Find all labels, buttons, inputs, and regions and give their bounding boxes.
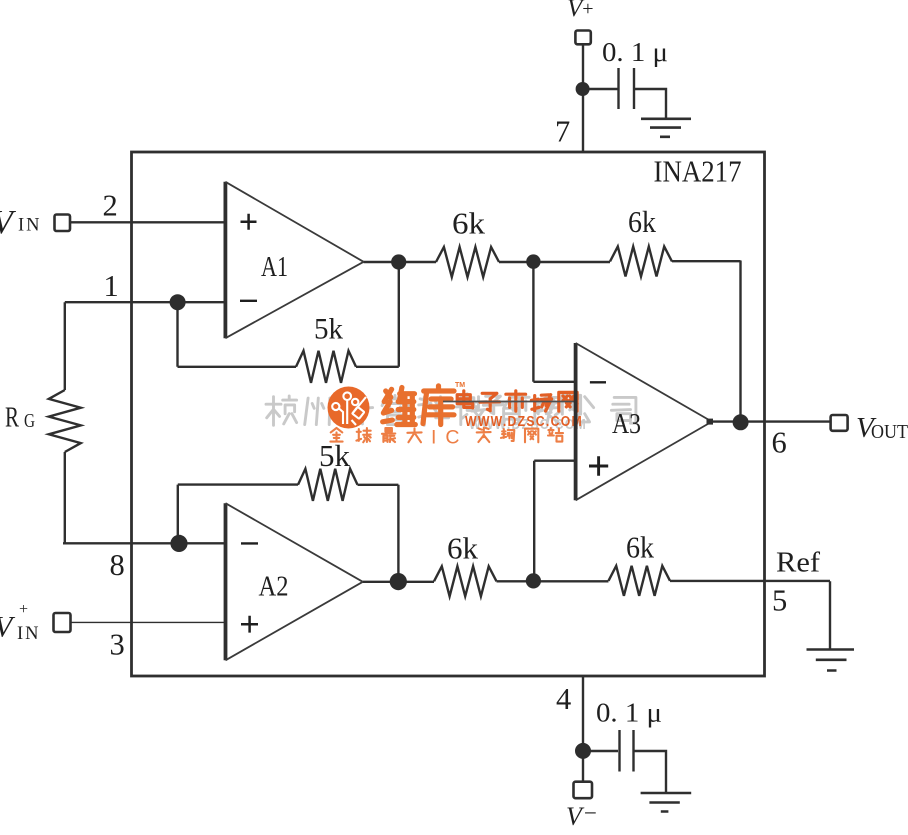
svg-text:IN: IN <box>17 624 41 644</box>
svg-text:5: 5 <box>772 584 787 618</box>
svg-text:6k: 6k <box>447 531 479 566</box>
svg-text:6k: 6k <box>452 206 486 241</box>
svg-text:1: 1 <box>104 269 119 303</box>
svg-text:5k: 5k <box>314 313 343 346</box>
svg-text:8: 8 <box>110 548 125 582</box>
svg-text:IC: IC <box>431 427 469 449</box>
svg-text:R: R <box>5 403 19 434</box>
svg-text:IN: IN <box>18 216 42 236</box>
svg-text:V+: V+ <box>567 0 594 22</box>
svg-text:3: 3 <box>110 628 125 662</box>
svg-text:A3: A3 <box>612 408 641 440</box>
svg-text:INA217: INA217 <box>654 154 742 189</box>
svg-text:A1: A1 <box>261 251 288 283</box>
svg-text:WWW.DZSC.COM: WWW.DZSC.COM <box>465 414 583 430</box>
svg-text:OUT: OUT <box>871 421 908 443</box>
svg-text:−: − <box>584 801 597 826</box>
svg-text:5k: 5k <box>319 438 351 473</box>
svg-text:4: 4 <box>556 682 571 716</box>
svg-text:0. 1 μ: 0. 1 μ <box>596 698 662 728</box>
svg-text:7: 7 <box>555 115 570 149</box>
svg-text:A2: A2 <box>259 571 289 603</box>
svg-text:TM: TM <box>455 382 465 389</box>
svg-text:G: G <box>24 410 35 432</box>
svg-text:2: 2 <box>103 189 118 223</box>
svg-text:+: + <box>19 601 28 618</box>
svg-text:6k: 6k <box>626 530 654 565</box>
svg-text:6: 6 <box>772 426 787 460</box>
svg-text:0. 1 μ: 0. 1 μ <box>602 37 668 67</box>
svg-text:6k: 6k <box>628 204 656 239</box>
svg-text:Ref: Ref <box>776 547 820 579</box>
